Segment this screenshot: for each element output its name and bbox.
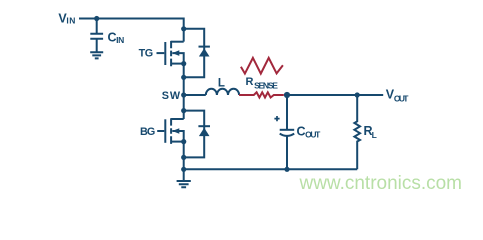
wire RL to VOUT label [357, 94, 383, 96]
wire VOUT node to RL [287, 94, 357, 96]
label plus polarity COUT [274, 116, 279, 121]
wire BG source to ground [183, 142, 185, 181]
junction dot BG drain [181, 108, 186, 113]
junction dot COUT bottom [284, 167, 289, 172]
inductor L [206, 89, 239, 95]
svg-text:BG: BG [140, 126, 155, 138]
junction dot VIN/CIN [94, 16, 99, 21]
svg-text:L: L [372, 130, 377, 140]
svg-text:TG: TG [139, 48, 154, 60]
svg-text:OUT: OUT [394, 94, 409, 104]
junction dot BG diode bottom [181, 155, 186, 160]
transistor Q2 BG: drain stub [171, 118, 184, 120]
svg-text:IN: IN [66, 15, 75, 25]
capacitor COUT bottom stem [286, 136, 288, 169]
svg-text:www.cntronics.com: www.cntronics.com [299, 173, 462, 194]
wire SW to inductor [184, 94, 206, 96]
junction dot TG source [181, 61, 186, 66]
ground (main) [177, 181, 191, 187]
transistor Q2 BG: gate lead [157, 130, 164, 132]
capacitor C_IN [90, 34, 103, 52]
capacitor COUT stem [286, 95, 288, 129]
junction dot ground rail [181, 167, 186, 172]
wire main vertical SW [183, 64, 185, 119]
wire bottom rail [184, 168, 358, 170]
junction dot RL top [355, 92, 360, 97]
capacitor COUT curved plate [280, 134, 295, 136]
transistor Q2 BG: channel bar [170, 118, 172, 144]
junction dot TG diode bottom [181, 75, 186, 80]
transistor Q2 BG arrow [172, 128, 179, 134]
transistor Q1 TG: body line [172, 53, 183, 64]
junction dot BG source [181, 139, 186, 144]
svg-text:IN: IN [116, 35, 124, 45]
svg-text:L: L [218, 78, 225, 90]
transistor Q1 TG: drain stub [171, 41, 184, 43]
resistor RSENSE highlight zigzag [241, 58, 283, 74]
wire top rail VIN [79, 19, 184, 42]
transistor Q1 TG: channel bar [170, 41, 172, 66]
svg-text:OUT: OUT [305, 130, 321, 140]
diode D1 TG body diode branch [184, 29, 205, 78]
junction dot VOUT node [284, 92, 290, 98]
diode D2 triangle [199, 128, 210, 136]
resistor RL branch [354, 95, 360, 169]
transistor Q1 TG: source stub [171, 63, 184, 65]
transistor Q2 BG: body line [172, 131, 183, 142]
diode D1 cathode bar [199, 46, 210, 48]
svg-text:SENSE: SENSE [254, 81, 278, 91]
junction dot TG drain [181, 26, 186, 31]
svg-text:SW: SW [162, 90, 181, 102]
transistor Q1 TG: gate bar [164, 42, 166, 65]
transistor Q1 TG arrow [172, 50, 179, 56]
transistor Q1 TG: gate lead [157, 52, 165, 54]
diode D2 BG body diode branch [184, 111, 205, 158]
transistor Q2 BG: gate bar [164, 119, 166, 143]
resistor RSENSE inline with wire [239, 92, 284, 97]
wire CIN stem top [96, 19, 98, 34]
diode D2 cathode bar [198, 125, 210, 127]
capacitor COUT top plate [280, 129, 295, 131]
junction dot SW [181, 92, 186, 97]
ground (C_IN) [90, 52, 103, 58]
transistor Q2 BG: source stub [171, 141, 184, 143]
diode D1 triangle [199, 48, 210, 56]
svg-text:R: R [246, 76, 254, 88]
